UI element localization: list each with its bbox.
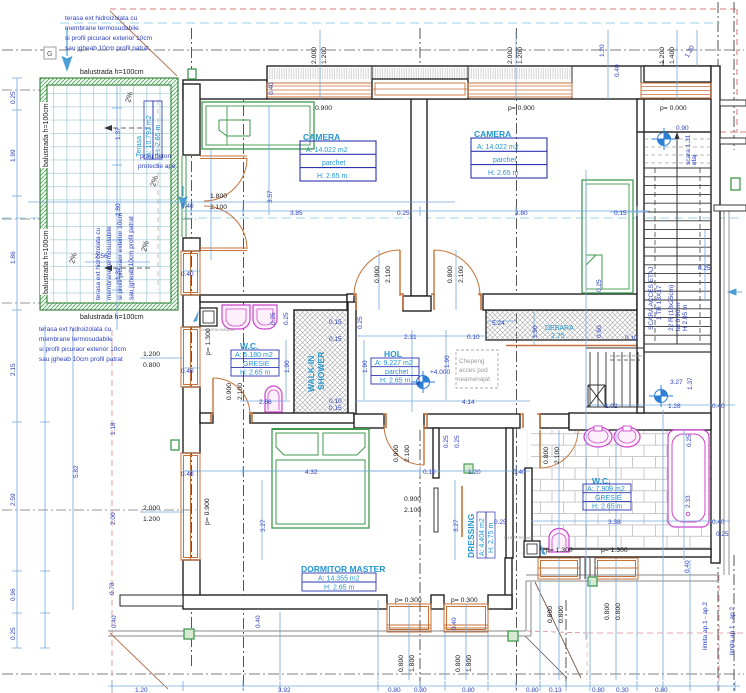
- svg-text:1.90: 1.90: [444, 355, 451, 368]
- top orange band segment 1: [267, 83, 372, 97]
- svg-text:2.100: 2.100: [237, 383, 244, 400]
- roof mitre diagonal bottom-center: [525, 636, 567, 678]
- cyan dashed line y23: [60, 22, 720, 24]
- svg-text:H: 2.65 m: H: 2.65 m: [155, 124, 162, 155]
- door dim line y202: [28, 201, 455, 203]
- svg-text:0.25: 0.25: [596, 279, 603, 292]
- svg-text:A: 9.227 m2: A: 9.227 m2: [375, 360, 413, 367]
- red dashed limit vertical x112: [111, 330, 113, 693]
- left margin dim chain x17: [12, 78, 22, 648]
- camera door dims vertical x379 x456: [379, 250, 456, 310]
- svg-text:sau jgheab 10cm profil patrat: sau jgheab 10cm profil patrat: [65, 45, 149, 52]
- camera1 label box: [300, 141, 376, 181]
- roof eave diagonal right: [535, 582, 581, 678]
- svg-text:si profil picuraor exterior 10: si profil picuraor exterior 10cm: [65, 35, 152, 42]
- left margin dim labels rotated: [10, 91, 17, 104]
- svg-text:0.800: 0.800: [543, 447, 550, 464]
- svg-text:1.200: 1.200: [143, 516, 160, 523]
- svg-text:parchet: parchet: [385, 369, 408, 376]
- svg-text:0.25: 0.25: [10, 627, 17, 640]
- bottom window dormitor 1: [387, 604, 431, 632]
- svg-text:0.25: 0.25: [270, 312, 277, 325]
- svg-text:p= 0.000: p= 0.000: [660, 105, 687, 112]
- stairwell left wall: [637, 99, 644, 413]
- lower flight balusters: [590, 352, 638, 407]
- wc1 dim row y401: [240, 400, 290, 402]
- axis dash-dot vertical x734 top: [733, 2, 735, 150]
- svg-text:0.25: 0.25: [494, 519, 507, 526]
- camera1 vertical dim x269: [268, 105, 270, 215]
- axis dash-dot vertical x734 bottom: [733, 555, 735, 691]
- top window box camera1: [372, 79, 468, 99]
- svg-text:0.40: 0.40: [712, 403, 725, 410]
- svg-text:1.20: 1.20: [135, 687, 148, 693]
- corridor tile grid: [513, 430, 527, 553]
- chepeng box: [456, 350, 498, 388]
- lower flight newel X: [588, 385, 605, 407]
- debara shelf orange line: [506, 345, 637, 347]
- cyan dashed line y214: [2, 217, 744, 219]
- svg-text:1.200: 1.200: [143, 351, 160, 358]
- svg-text:0.30: 0.30: [616, 687, 629, 693]
- terasa label box rotated: [136, 101, 162, 159]
- svg-text:0.15: 0.15: [329, 405, 342, 412]
- svg-text:A: 14.022 m2: A: 14.022 m2: [306, 147, 348, 154]
- terrace inner dim x117: [112, 85, 122, 330]
- svg-text:0.800: 0.800: [398, 655, 405, 672]
- dressing left partition lower: [434, 488, 438, 532]
- svg-text:0.25: 0.25: [443, 435, 450, 448]
- bottom wall wc1 row: mid part: [250, 413, 354, 423]
- roof diagonal bottom-left: [110, 633, 168, 689]
- svg-text:0.25: 0.25: [454, 435, 461, 448]
- pink dashed vertical x587: [586, 634, 588, 680]
- dormitor door jambs: [383, 414, 427, 428]
- stair landing wall stub y132: [637, 131, 711, 133]
- terrace dim 2.56 line: [85, 261, 150, 263]
- svg-text:1.200: 1.200: [321, 47, 328, 64]
- left dim line x73 5.82: [72, 330, 74, 610]
- hol vertical x412 p=0.900: [411, 330, 413, 412]
- wc2 door jambs: [520, 414, 540, 428]
- svg-text:A: 4.404 m2: A: 4.404 m2: [479, 518, 486, 556]
- right margin dims x705: [704, 230, 706, 300]
- G axis bubble: [44, 47, 56, 59]
- svg-text:22 R (18x25cm): 22 R (18x25cm): [668, 285, 675, 331]
- terrace slope arrow upper: [104, 125, 150, 131]
- vertical dim lines inner rooms: [286, 310, 534, 400]
- camera1 desk inner: [206, 106, 310, 145]
- svg-text:1.02: 1.02: [605, 403, 618, 410]
- svg-text:0.40: 0.40: [255, 615, 262, 628]
- svg-text:limita ap.1 - ap.2: limita ap.1 - ap.2: [702, 602, 709, 650]
- svg-text:1.800: 1.800: [466, 655, 473, 672]
- svg-text:1.28: 1.28: [668, 403, 681, 410]
- svg-text:2.31: 2.31: [404, 334, 417, 341]
- hol bottom dim row y470: [183, 466, 530, 476]
- dormitor bottom wall right segment: [488, 595, 512, 609]
- wc2 sink left: [584, 426, 612, 447]
- parapet corner vertical: [526, 581, 531, 636]
- shaft box wc2 inner: [527, 544, 537, 554]
- washing box blue triangle: [193, 310, 199, 322]
- svg-text:3.27: 3.27: [260, 519, 267, 532]
- svg-text:2.75: 2.75: [551, 333, 565, 340]
- walk-in shower label rotated: [306, 352, 326, 392]
- svg-text:1.200: 1.200: [659, 47, 666, 64]
- svg-text:H: 2.75 m: H: 2.75 m: [488, 522, 495, 553]
- roof diagonal bottom-center red: [527, 631, 586, 633]
- svg-text:0.25: 0.25: [716, 531, 729, 538]
- shaft box wc2: [524, 541, 540, 557]
- svg-text:0.25: 0.25: [283, 312, 290, 325]
- camera1 chair with fold: [219, 120, 250, 136]
- svg-text:W.C.: W.C.: [592, 476, 610, 486]
- svg-text:balustrada h=100cm: balustrada h=100cm: [610, 354, 642, 358]
- camera2 door jambs: [431, 294, 481, 310]
- svg-text:1 TR 18X17: 1 TR 18X17: [656, 285, 663, 320]
- svg-text:0.40: 0.40: [684, 560, 691, 573]
- svg-text:5.24: 5.24: [492, 320, 505, 327]
- svg-text:2.100: 2.100: [210, 204, 227, 211]
- svg-text:parchet: parchet: [493, 157, 516, 164]
- svg-text:sau jgheab 10cm profil patrat: sau jgheab 10cm profil patrat: [39, 356, 123, 363]
- svg-text:2.100: 2.100: [554, 447, 561, 464]
- wall shower / hol: [348, 302, 356, 415]
- wc2 dim x684: [683, 430, 685, 560]
- bottom margin chain y686: [108, 681, 740, 691]
- axis dash-dot vertical x718: [717, 2, 719, 691]
- dormitor door arc: [384, 425, 424, 465]
- svg-text:0.40: 0.40: [268, 82, 275, 95]
- hol top wall left bit: [347, 294, 354, 310]
- green marker right wall: [731, 178, 740, 190]
- dressing left wall: [433, 428, 439, 478]
- terrace french door arc2: [204, 206, 247, 249]
- lower flight stringer: [586, 348, 644, 407]
- neighbour wall stub y205: [714, 205, 746, 211]
- dormitor mattress: [276, 460, 365, 524]
- bottom wall extension left: [120, 595, 183, 606]
- svg-text:p= 0.300: p= 0.300: [451, 597, 478, 604]
- svg-text:2.000: 2.000: [143, 505, 160, 512]
- svg-text:0.15: 0.15: [329, 319, 342, 326]
- svg-text:H: 2.65 m: H: 2.65 m: [488, 170, 519, 177]
- svg-text:0.30: 0.30: [414, 687, 427, 693]
- svg-text:SH.INST.TEHNICA: SH.INST.TEHNICA: [504, 536, 534, 540]
- svg-text:Chepeng: Chepeng: [459, 358, 485, 365]
- svg-text:0.25: 0.25: [698, 265, 711, 272]
- neighbour wall stub y138: [720, 138, 746, 144]
- green marker parapet left: [184, 629, 194, 639]
- wc2 toilet: [549, 529, 569, 553]
- svg-text:0.10: 0.10: [423, 469, 436, 476]
- svg-text:H: 2.65 m: H: 2.65 m: [317, 173, 348, 180]
- svg-text:2.59: 2.59: [10, 493, 17, 506]
- inter-camera wall: [411, 99, 427, 296]
- svg-text:1.200: 1.200: [517, 47, 524, 64]
- svg-text:+4.000: +4.000: [430, 369, 450, 376]
- window size labels top rotated: [311, 47, 328, 64]
- wc1 sink left inner: [226, 309, 246, 326]
- dormitor bottom wall stub between windows: [431, 595, 444, 609]
- wc1 sink right: [253, 305, 277, 329]
- svg-text:1.18: 1.18: [110, 422, 117, 435]
- terrace french door leaf2: [200, 248, 247, 251]
- svg-text:0.10: 0.10: [329, 398, 342, 405]
- dormitor pillow 1: [276, 433, 318, 455]
- svg-text:neamenajat: neamenajat: [457, 376, 490, 383]
- green marker eave right: [588, 577, 597, 586]
- svg-text:0.13: 0.13: [549, 687, 562, 693]
- hol bottom wall right / dressing top: [424, 414, 520, 428]
- washing box wc1: [200, 308, 217, 326]
- hol top wall right segment / camera2-debara wall: [483, 294, 637, 310]
- camera2 door arc: [434, 250, 480, 296]
- neighbour wall stub y100: [720, 100, 746, 106]
- svg-text:2.00: 2.00: [110, 512, 117, 525]
- svg-text:0.900: 0.900: [315, 105, 332, 112]
- axis dash-dot vertical x243: [243, 86, 245, 690]
- wc2 label box: [583, 484, 631, 511]
- svg-text:2.100: 2.100: [385, 266, 392, 283]
- svg-text:terasa ext hidroizolata cu: terasa ext hidroizolata cu: [95, 227, 102, 300]
- svg-text:SCARA ACCES ETAJ: SCARA ACCES ETAJ: [648, 267, 655, 330]
- terrace french door leaf1: [200, 156, 247, 159]
- svg-text:0.80: 0.80: [592, 687, 605, 693]
- svg-text:si profil picuraor exterior 10: si profil picuraor exterior 10cm: [39, 346, 126, 353]
- hol bottom dim labels: [443, 435, 450, 448]
- wc2 top wall (stair landing wall): [569, 413, 711, 430]
- wc1 toilet: [265, 386, 282, 412]
- axis dash-dot vertical x420 bottom: [419, 430, 421, 690]
- green marker hol bottom: [464, 464, 473, 473]
- svg-text:2.56: 2.56: [95, 253, 108, 260]
- svg-text:G: G: [47, 51, 52, 58]
- svg-text:0.800: 0.800: [604, 603, 611, 620]
- svg-text:DEBARA: DEBARA: [545, 325, 574, 332]
- level marker stairs bottom: [649, 385, 673, 407]
- wc2 dim row y521: [531, 520, 730, 522]
- svg-text:1.90: 1.90: [362, 360, 369, 373]
- W.C.2 brick tile floor: [531, 430, 711, 553]
- neighbour eave vertical right: [724, 211, 729, 575]
- svg-text:A: 14.355 m2: A: 14.355 m2: [318, 576, 360, 583]
- svg-text:Terasa: Terasa: [136, 136, 143, 157]
- svg-text:0.80: 0.80: [655, 687, 668, 693]
- red dashed roof line right top vertical: [736, 9, 738, 133]
- note text terrace rotated: [95, 213, 135, 300]
- bottom wall wc1+dormitor row: left part: [200, 413, 213, 423]
- right party wall: [711, 66, 720, 563]
- left wall segment mid1: [183, 295, 200, 327]
- svg-text:0.900: 0.900: [226, 383, 233, 400]
- svg-text:DRESSING: DRESSING: [466, 513, 476, 558]
- svg-text:2.000: 2.000: [311, 47, 318, 64]
- svg-text:balustrada h=100cm: balustrada h=100cm: [43, 103, 50, 167]
- svg-text:0.80: 0.80: [462, 687, 475, 693]
- stair center rail: [676, 132, 678, 344]
- dormitor bed headboard: [272, 428, 369, 430]
- limita text right: [702, 602, 709, 650]
- svg-text:0.800: 0.800: [143, 362, 160, 369]
- svg-text:0.40: 0.40: [181, 368, 194, 375]
- svg-text:0.25: 0.25: [10, 91, 17, 104]
- balustrada label top: [78, 66, 152, 76]
- green marker parapet mid: [508, 631, 518, 641]
- window size labels bottom rotated: [398, 655, 416, 672]
- green marker top-left wall: [188, 69, 196, 79]
- svg-text:4.14: 4.14: [462, 399, 475, 406]
- left wall segment bottom: [183, 560, 200, 607]
- hol dim row y336: [356, 335, 486, 337]
- svg-text:H: 2.65 m: H: 2.65 m: [240, 370, 271, 377]
- svg-text:0.40: 0.40: [181, 471, 194, 478]
- axis dash-dot horizontal y219: [2, 218, 196, 220]
- balustrada label left upper (rotated): [40, 102, 50, 168]
- svg-text:2.15: 2.15: [10, 363, 17, 376]
- left wall segment mid2: [183, 387, 200, 453]
- svg-text:membrane termosudabile: membrane termosudabile: [106, 226, 113, 300]
- bottom chain connectors: [280, 410, 690, 680]
- svg-text:0.96: 0.96: [10, 588, 17, 601]
- inter-camera wall end stub: [403, 296, 431, 311]
- svg-text:1.37: 1.37: [115, 127, 122, 140]
- svg-text:0.15: 0.15: [614, 210, 627, 217]
- svg-text:0.15: 0.15: [329, 336, 342, 343]
- svg-text:0.40: 0.40: [181, 271, 194, 278]
- svg-text:0.25: 0.25: [686, 434, 693, 447]
- wc1 door leaf: [212, 378, 214, 415]
- svg-text:lat 0.90 m: lat 0.90 m: [675, 302, 682, 331]
- left wall window wc1: [181, 251, 200, 295]
- stair mid landing line: [644, 351, 711, 353]
- svg-text:3.92: 3.92: [278, 687, 291, 693]
- svg-text:membrane termosudabile: membrane termosudabile: [65, 25, 139, 32]
- dressing slide door leaf: [461, 486, 463, 537]
- wall camera1 / wc1: [200, 295, 347, 302]
- stair dashed headroom lines: [655, 168, 700, 344]
- svg-text:3.57: 3.57: [267, 190, 274, 203]
- blue arrow terrace top: [63, 28, 72, 70]
- svg-text:A: 5.180 m2: A: 5.180 m2: [235, 352, 273, 359]
- level marker hol: [411, 371, 435, 393]
- axis dash-dot horizontal y50: [2, 49, 744, 51]
- green marker left wall mid: [171, 440, 179, 450]
- svg-text:0.25: 0.25: [397, 210, 410, 217]
- camera2 door leaf: [433, 250, 435, 296]
- svg-text:GRESIE: GRESIE: [595, 495, 622, 502]
- svg-text:1.32: 1.32: [115, 267, 122, 280]
- svg-text:0.800: 0.800: [447, 266, 454, 283]
- axis dash-dot horizontal y303: [2, 302, 200, 304]
- wc1 door arc: [213, 378, 250, 415]
- stair landing dashed treads above: [644, 139, 711, 163]
- svg-text:balustrada h=100cm: balustrada h=100cm: [80, 69, 144, 76]
- camera1 door vertical line x211: [210, 150, 212, 260]
- dormitor door leaf: [423, 425, 425, 465]
- wc2 left wall below door: [525, 468, 532, 556]
- red dashed stub right y132: [720, 131, 746, 133]
- svg-text:0.800: 0.800: [455, 655, 462, 672]
- dormitor bottom wall left segment: [183, 595, 387, 609]
- red dashed limit vertical x719 bottom: [718, 575, 720, 693]
- svg-text:2.33: 2.33: [685, 495, 692, 508]
- svg-text:4.32: 4.32: [305, 469, 318, 476]
- stairs dim row y405: [590, 404, 735, 406]
- balustrada label bottom: [78, 311, 152, 321]
- wc1 door jambs: [211, 413, 252, 423]
- svg-text:A: 14.022 m2: A: 14.022 m2: [477, 144, 519, 151]
- svg-text:terasa ext hidroizolata cu: terasa ext hidroizolata cu: [65, 15, 138, 22]
- left wall segment below door: [183, 238, 200, 251]
- top wall main band: [267, 66, 711, 99]
- camera2 bed outer: [582, 180, 633, 293]
- svg-text:1.99: 1.99: [10, 149, 17, 162]
- wc2 sink right: [614, 426, 640, 447]
- svg-text:A: 7.909 m2: A: 7.909 m2: [587, 486, 625, 493]
- svg-text:H 2.05 m: H 2.05 m: [682, 305, 689, 331]
- wc2 verticals: [559, 430, 616, 549]
- dormitor pillow 2: [323, 433, 365, 455]
- svg-text:0.40: 0.40: [513, 469, 526, 476]
- wc2 door leaf: [539, 430, 541, 468]
- parapet eave right: [526, 575, 717, 581]
- svg-text:3.27: 3.27: [670, 379, 683, 386]
- camera2 label box: [471, 138, 547, 178]
- svg-text:0.900: 0.900: [374, 266, 381, 283]
- axis dash-dot vertical x191: [191, 28, 193, 666]
- svg-text:H: 2.65 m: H: 2.65 m: [324, 585, 355, 592]
- camera1 door jambs: [353, 294, 403, 310]
- svg-text:DORMITOR MASTER: DORMITOR MASTER: [301, 564, 385, 574]
- washing box wc1 inner: [203, 311, 214, 323]
- terrace balustrade outer band: [40, 78, 178, 310]
- svg-text:2.100: 2.100: [404, 445, 411, 462]
- wc2 bathtub drain: [686, 512, 690, 516]
- svg-text:1.20: 1.20: [468, 469, 481, 476]
- svg-text:protectie ape: protectie ape: [138, 163, 176, 170]
- left margin chain2 x45: [40, 325, 50, 648]
- bottom window wc2 2: [595, 558, 638, 579]
- left wall segment top: [183, 84, 200, 155]
- svg-text:0.800: 0.800: [615, 603, 622, 620]
- left wall ticks 0.40: [183, 271, 200, 471]
- parapet line bottom left: [108, 631, 531, 636]
- camera1 door arc: [354, 250, 400, 296]
- svg-text:HOL: HOL: [384, 349, 402, 359]
- debara hatched shelf area: [486, 310, 637, 340]
- main top dim row y211: [183, 206, 650, 216]
- dormitor inner vertical x262: [262, 480, 455, 560]
- top orange band stair bay: [641, 83, 711, 98]
- svg-text:2.000: 2.000: [507, 47, 514, 64]
- camera2 bed inner: [586, 184, 629, 289]
- svg-text:1.800: 1.800: [409, 655, 416, 672]
- svg-text:2.100: 2.100: [404, 507, 421, 514]
- dressing bottom right corner wall: [505, 558, 512, 609]
- wc1 toilet inner: [268, 390, 279, 410]
- scara small rotated right: [685, 134, 698, 165]
- svg-text:0.40: 0.40: [451, 617, 458, 630]
- svg-text:terasa ext hidroizolata cu: terasa ext hidroizolata cu: [39, 326, 112, 333]
- axis dash-dot vertical x516: [516, 28, 518, 690]
- svg-text:p= 1.300: p= 1.300: [205, 328, 212, 355]
- svg-text:0.800: 0.800: [558, 606, 565, 623]
- svg-text:H: 2.65 m: H: 2.65 m: [380, 378, 411, 385]
- red dashed roof line top: [110, 8, 737, 10]
- terrace door threshold green: [182, 156, 186, 237]
